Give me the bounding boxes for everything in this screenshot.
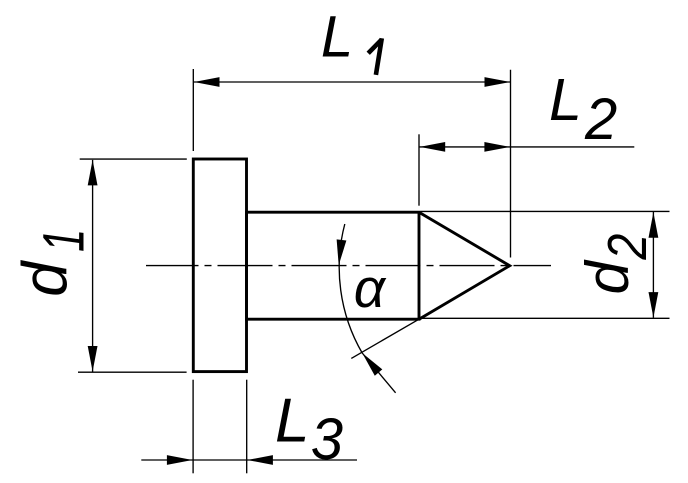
dimension L1: dimension line	[193, 81, 510, 83]
svg-text:d: d	[574, 260, 641, 295]
angle dimension: bottom arrowhead (pointing up-left at cone edge)	[358, 350, 382, 376]
dimension L2: left extension line	[418, 134, 420, 205]
angle dimension: leader tail	[362, 353, 395, 393]
dimension d1: dimension line	[92, 160, 94, 372]
svg-text:1: 1	[32, 229, 97, 252]
svg-text:2: 2	[596, 234, 658, 261]
dimension L3: dimension line	[141, 459, 357, 461]
svg-text:3: 3	[311, 407, 343, 472]
dimension L1: left extension line	[192, 69, 194, 151]
dimension L1: left arrowhead	[194, 77, 220, 87]
part outline: conical tip	[419, 212, 510, 319]
dimension L3: right extension line	[246, 380, 248, 474]
dimension d1: top extension line	[80, 158, 187, 160]
svg-text:d: d	[11, 260, 81, 297]
dimension L1: right arrowhead	[485, 77, 511, 87]
part outline: flange	[193, 159, 246, 372]
part outline: shaft	[247, 212, 420, 319]
dimension d2: bottom extension line	[421, 317, 670, 319]
centerline	[146, 265, 551, 267]
svg-text:L: L	[549, 67, 582, 133]
dimension d2: dimension line	[652, 212, 654, 318]
dimension L2: left arrowhead	[420, 142, 446, 152]
dimension L1: right extension line	[510, 70, 512, 258]
dimension d2: top extension line	[421, 210, 670, 212]
dimension d1: bottom extension line	[78, 371, 187, 373]
dimension L2: dimension line	[419, 146, 634, 148]
dimension L3: left arrowhead (outside, pointing right)	[167, 455, 193, 465]
dimension L2: right arrowhead	[484, 142, 510, 152]
angle dimension: arc	[339, 224, 362, 353]
dimension L3: right arrowhead (outside, pointing left)	[247, 455, 273, 465]
dimension d2: bottom arrowhead	[649, 292, 659, 318]
angle dimension: top arrowhead (pointing down at centerline)	[334, 239, 347, 265]
svg-text:L: L	[275, 387, 309, 456]
dimension d2: top arrowhead	[649, 212, 659, 238]
svg-text:L: L	[321, 5, 353, 70]
svg-text:α: α	[354, 257, 387, 319]
angle dimension: cone edge extension line	[351, 319, 419, 358]
dimension d1: top arrowhead	[88, 160, 98, 186]
svg-text:2: 2	[584, 87, 617, 152]
dimension L3: left extension line	[192, 380, 194, 474]
dimension d1: bottom arrowhead	[88, 346, 98, 372]
